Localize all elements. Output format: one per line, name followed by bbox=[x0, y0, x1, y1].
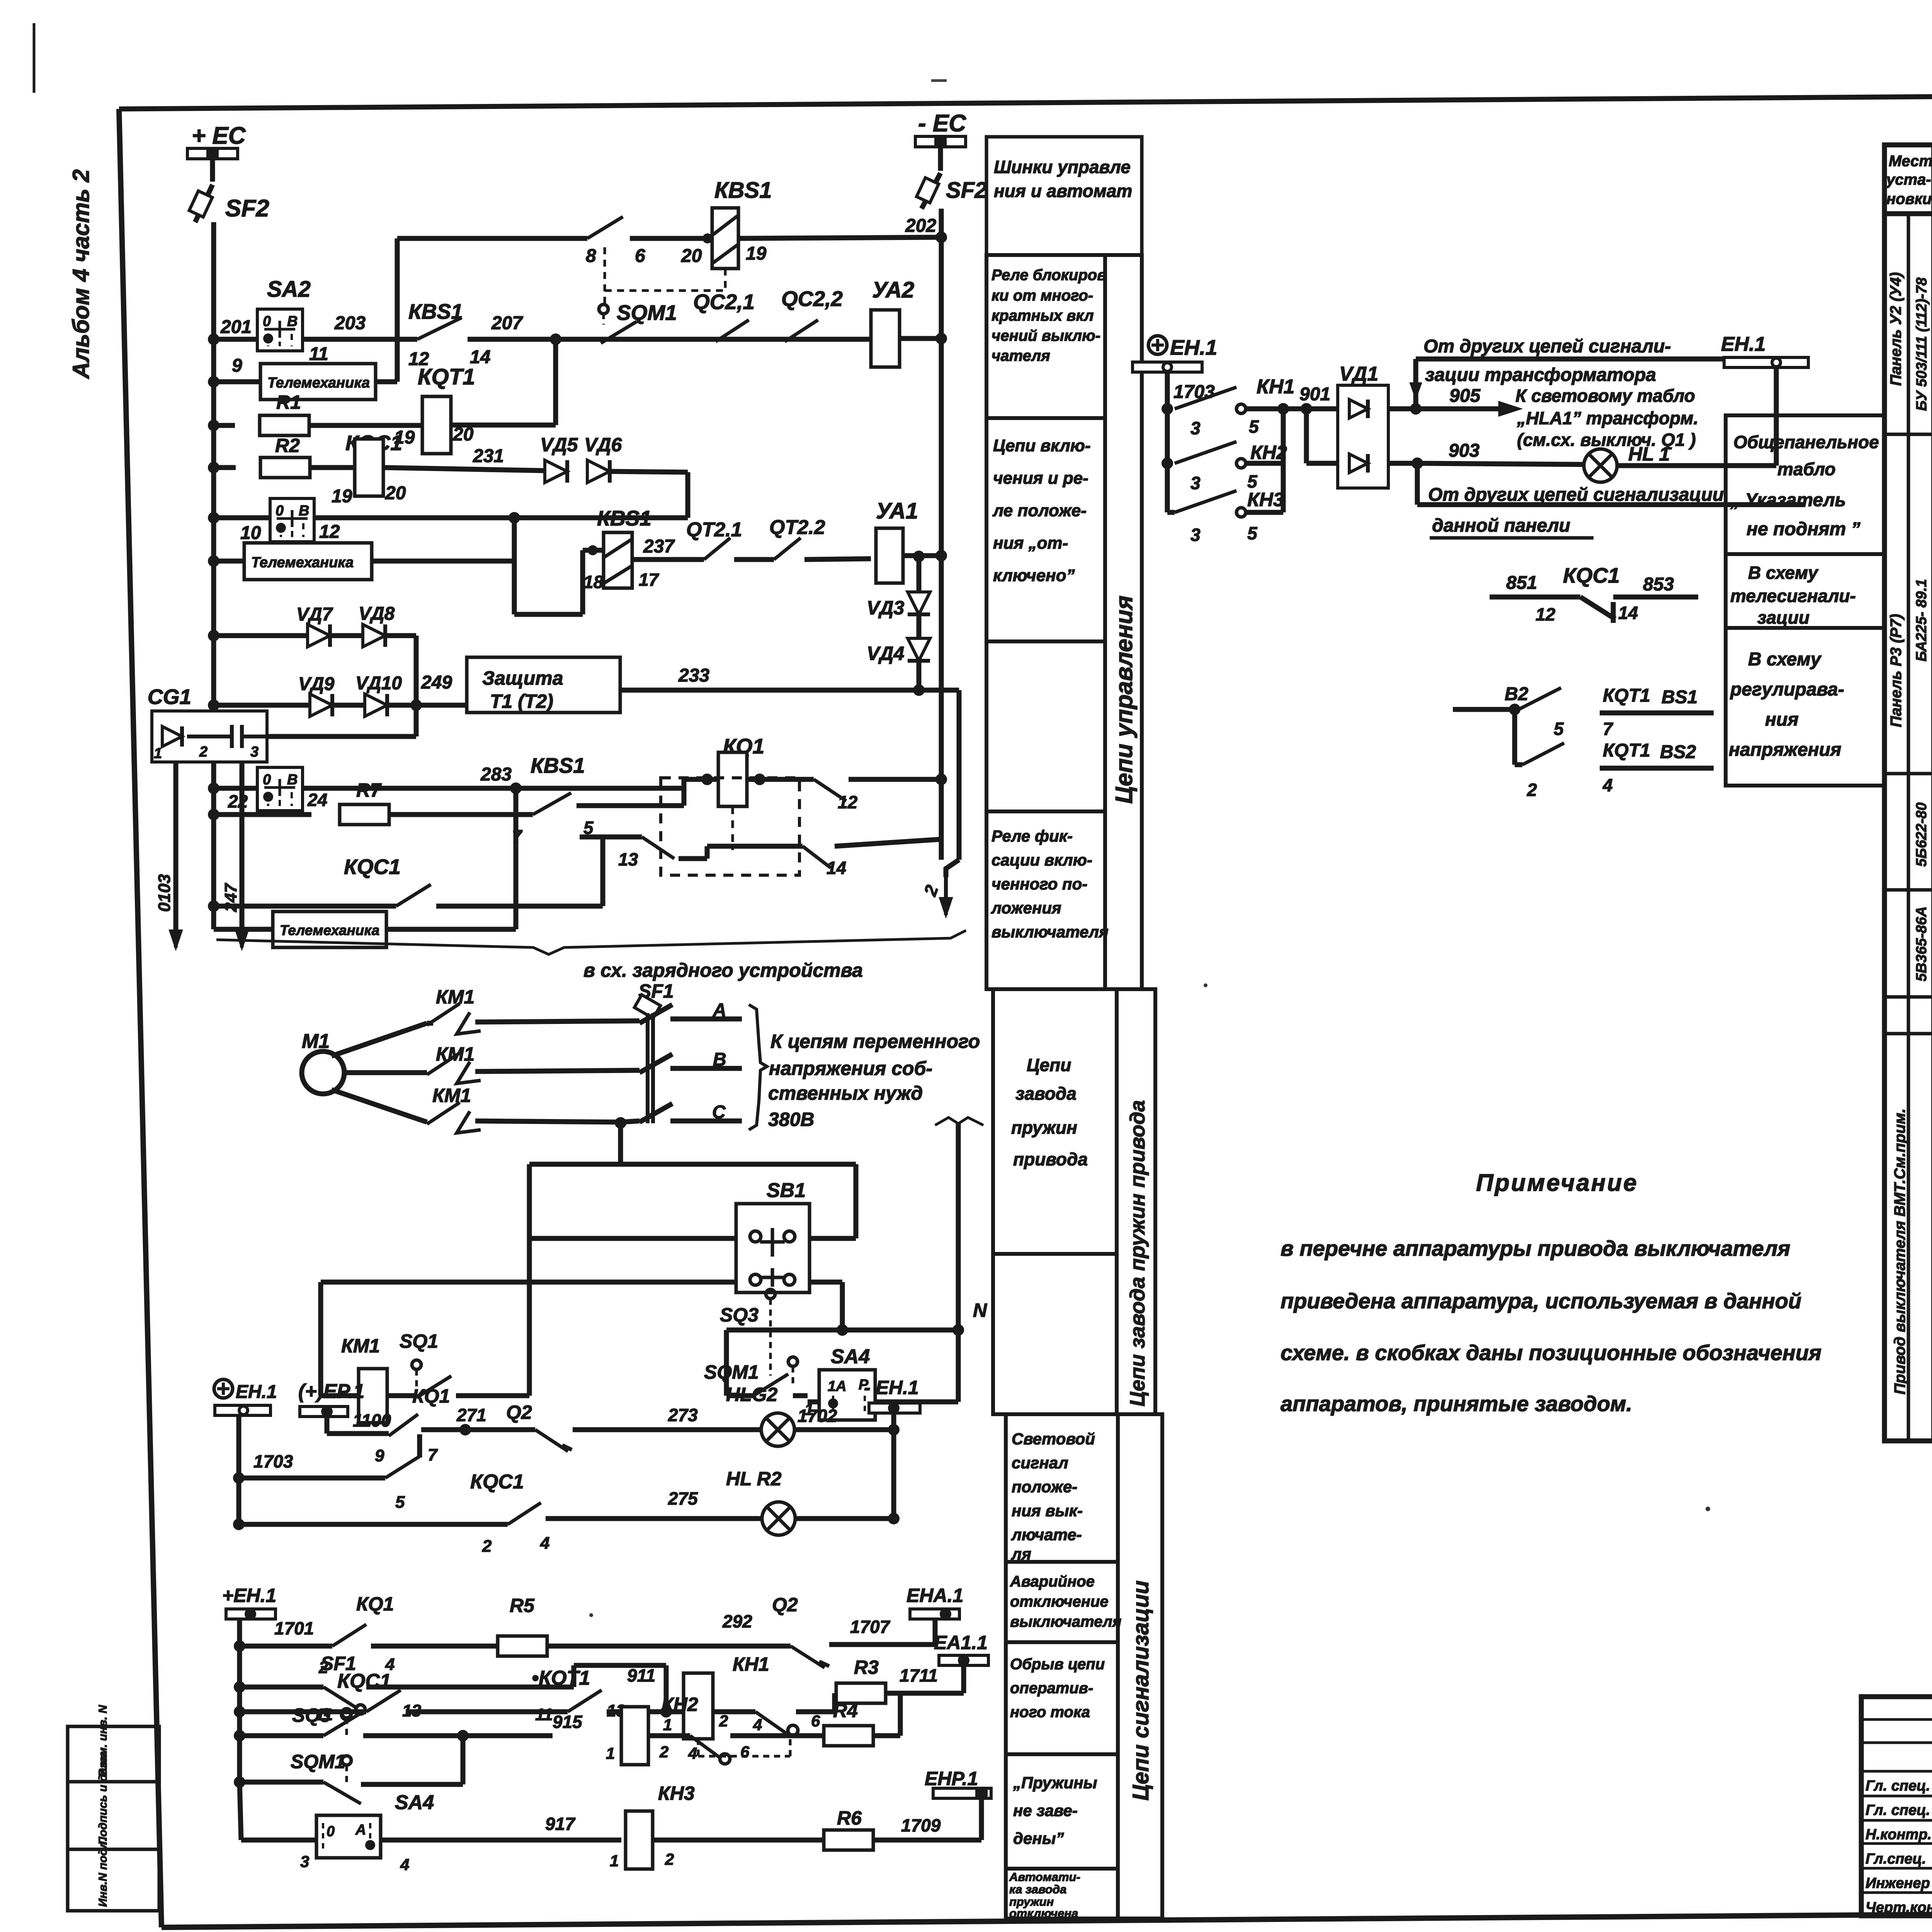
svg-text:КН3: КН3 bbox=[1247, 489, 1284, 510]
wire phase C drop to SB1 loop bbox=[618, 1123, 623, 1164]
strip control circuits bbox=[1105, 255, 1142, 989]
svg-text:Аварийное: Аварийное bbox=[1010, 1573, 1095, 1590]
svg-text:Привод выключателя ВМТ.См.прим: Привод выключателя ВМТ.См.прим. bbox=[1891, 1109, 1908, 1395]
svg-text:1: 1 bbox=[606, 1744, 615, 1762]
wire 203 bbox=[303, 337, 417, 342]
svg-text:Телемеханика: Телемеханика bbox=[251, 554, 354, 571]
svg-text:А: А bbox=[355, 1822, 366, 1838]
svg-text:Световой: Световой bbox=[1012, 1430, 1095, 1448]
label box broken circuit bbox=[1006, 1642, 1118, 1754]
wire main minus bus bbox=[939, 209, 944, 860]
svg-text:12: 12 bbox=[838, 792, 858, 812]
wire 283 drop bbox=[514, 788, 519, 929]
svg-text:5: 5 bbox=[1554, 719, 1564, 739]
bus EH.1 plus lower bbox=[214, 1379, 233, 1398]
svg-text:1709: 1709 bbox=[901, 1815, 941, 1835]
svg-text:КМ1: КМ1 bbox=[432, 1085, 471, 1106]
svg-text:КВS1: КВS1 bbox=[597, 506, 651, 530]
breaker SF2 bbox=[195, 185, 213, 222]
svg-text:КQС1: КQС1 bbox=[344, 855, 401, 879]
wire 202 bbox=[738, 237, 941, 238]
label box emergency trip bbox=[1006, 1562, 1118, 1642]
svg-text:9: 9 bbox=[375, 1446, 384, 1465]
svg-text:0: 0 bbox=[327, 1823, 335, 1840]
svg-text:20: 20 bbox=[681, 246, 702, 266]
svg-text:не заве-: не заве- bbox=[1013, 1801, 1078, 1820]
bus EHP.1 bbox=[979, 1798, 984, 1840]
svg-text:(+)ЕР.1: (+)ЕР.1 bbox=[298, 1380, 364, 1403]
svg-text:- ЕС: - ЕС bbox=[918, 110, 966, 137]
svg-text:выключателя: выключателя bbox=[992, 923, 1109, 941]
svg-text:2: 2 bbox=[719, 1712, 728, 1730]
label box circuits on bbox=[986, 418, 1105, 641]
svg-text:ЕА1.1: ЕА1.1 bbox=[934, 1632, 988, 1653]
wire SF1 row bbox=[234, 1681, 245, 1693]
wire link 1703 contact up bbox=[417, 1434, 422, 1458]
svg-text:1701: 1701 bbox=[274, 1618, 314, 1638]
wire zigzag minus bus bbox=[939, 839, 944, 860]
contact SQM1 lower bbox=[323, 1782, 361, 1804]
wire branch vertical bbox=[395, 238, 400, 382]
svg-text:207: 207 bbox=[491, 313, 523, 333]
svg-text:6: 6 bbox=[740, 1743, 750, 1761]
svg-text:сигнал: сигнал bbox=[1012, 1454, 1068, 1472]
svg-text:+ ЕС: + ЕС bbox=[192, 122, 246, 149]
svg-text:0103: 0103 bbox=[155, 874, 174, 912]
svg-text:0: 0 bbox=[263, 772, 271, 788]
svg-text:VД3: VД3 bbox=[867, 597, 904, 619]
box common panel light bbox=[1726, 415, 1884, 554]
wire 1701 row bbox=[234, 1640, 245, 1652]
svg-text:0: 0 bbox=[263, 313, 271, 330]
contact SF1 lower bbox=[323, 1687, 358, 1709]
svg-text:БУ 503/111 (112)-78: БУ 503/111 (112)-78 bbox=[1914, 277, 1930, 411]
drawing frame border bbox=[119, 92, 1932, 109]
svg-text:Панель У2 (У4): Панель У2 (У4) bbox=[1888, 272, 1905, 386]
contact KH1 row 1703 bbox=[1162, 403, 1173, 415]
svg-text:Гл. спец.: Гл. спец. bbox=[1866, 1802, 1930, 1818]
svg-text:КQ1: КQ1 bbox=[356, 1593, 394, 1615]
svg-text:Реле фик-: Реле фик- bbox=[992, 827, 1073, 845]
brace N wire bbox=[935, 1117, 983, 1125]
svg-text:В: В bbox=[287, 772, 298, 788]
svg-text:SА4: SА4 bbox=[831, 1345, 870, 1368]
svg-text:271: 271 bbox=[456, 1405, 486, 1425]
svg-text:1: 1 bbox=[154, 745, 162, 762]
box telemechanika 2 bbox=[214, 559, 244, 564]
svg-text:203: 203 bbox=[334, 313, 366, 333]
table outer frame bbox=[1884, 145, 1932, 1441]
svg-text:телесигнали-: телесигнали- bbox=[1730, 586, 1856, 606]
wire 901 branch bbox=[1304, 409, 1309, 463]
diode VD9 bbox=[214, 703, 309, 708]
wire drop telemechanika 2 bbox=[512, 518, 517, 561]
svg-text:N: N bbox=[973, 1299, 987, 1321]
box to voltage regulation scheme bbox=[1726, 628, 1884, 786]
svg-text:8: 8 bbox=[586, 246, 596, 266]
svg-text:ния: ния bbox=[1765, 709, 1799, 730]
bottom-left margin stamp boxes bbox=[68, 1726, 159, 1911]
svg-text:„Пружины: „Пружины bbox=[1013, 1774, 1097, 1792]
svg-text:КQТ1: КQТ1 bbox=[1603, 740, 1650, 761]
contact KQC1 11-13 bbox=[366, 1690, 401, 1712]
svg-text:3: 3 bbox=[1190, 525, 1201, 545]
svg-text:В: В bbox=[713, 1049, 726, 1070]
svg-text:905: 905 bbox=[1449, 386, 1481, 406]
svg-text:ЕНР.1: ЕНР.1 bbox=[925, 1768, 978, 1789]
svg-text:6: 6 bbox=[811, 1712, 820, 1730]
wire 905 bbox=[1410, 403, 1422, 415]
phase slashes through SF1 bbox=[639, 1005, 672, 1023]
wire up to 207 bbox=[553, 339, 558, 425]
svg-text:22: 22 bbox=[228, 791, 248, 811]
svg-text:4: 4 bbox=[688, 1744, 697, 1762]
svg-text:Телемеханика: Телемеханика bbox=[280, 922, 379, 938]
svg-text:13: 13 bbox=[618, 849, 638, 869]
svg-text:Гл.спец.: Гл.спец. bbox=[1866, 1851, 1926, 1867]
svg-text:ключено”: ключено” bbox=[993, 566, 1075, 585]
svg-text:917: 917 bbox=[545, 1814, 576, 1834]
wire HLR2 row bbox=[233, 1519, 245, 1530]
svg-text:Инженер: Инженер bbox=[1866, 1875, 1930, 1891]
svg-text:КQС1: КQС1 bbox=[470, 1471, 524, 1493]
svg-text:SQМ1: SQМ1 bbox=[704, 1361, 759, 1383]
svg-text:19: 19 bbox=[746, 243, 767, 264]
contact KM1 phase B bbox=[344, 1070, 427, 1075]
wire 247 drop bbox=[240, 762, 245, 943]
wire 202 left bbox=[630, 236, 712, 241]
table section dividers col1 bbox=[1884, 433, 1932, 436]
svg-text:В: В bbox=[287, 313, 298, 330]
svg-text:14: 14 bbox=[827, 858, 846, 878]
svg-text:1100: 1100 bbox=[353, 1410, 391, 1430]
relay coil KQ1 bbox=[684, 777, 718, 782]
svg-text:отключена: отключена bbox=[1009, 1906, 1078, 1920]
svg-text:КН1: КН1 bbox=[1257, 376, 1294, 398]
svg-text:VД10: VД10 bbox=[355, 673, 402, 694]
wire SB1 bottom left bbox=[321, 1280, 736, 1285]
svg-text:в сх. зарядного устройства: в сх. зарядного устройства bbox=[583, 959, 863, 981]
svg-text:зации: зации bbox=[1757, 607, 1810, 628]
svg-text:кратных вкл: кратных вкл bbox=[992, 307, 1094, 324]
diode VD7 bbox=[214, 633, 308, 638]
svg-text:2: 2 bbox=[659, 1743, 668, 1761]
svg-text:КН3: КН3 bbox=[658, 1782, 695, 1804]
svg-text:в перечне аппаратуры привод: в перечне аппаратуры привода выключателя bbox=[1281, 1236, 1790, 1260]
svg-text:5: 5 bbox=[395, 1493, 405, 1512]
svg-text:7: 7 bbox=[428, 1446, 438, 1464]
svg-text:Q2: Q2 bbox=[506, 1401, 532, 1423]
svg-text:К световому табло: К световому табло bbox=[1515, 386, 1695, 406]
svg-text:Цепи: Цепи bbox=[1027, 1055, 1071, 1075]
svg-text:24: 24 bbox=[307, 790, 327, 810]
svg-text:Защита: Защита bbox=[482, 667, 563, 689]
terminals A B C bbox=[670, 1017, 742, 1022]
svg-text:А: А bbox=[713, 1000, 726, 1020]
svg-text:табло: табло bbox=[1777, 459, 1835, 479]
resistor R1 bbox=[214, 423, 235, 428]
svg-text:ния „от-: ния „от- bbox=[993, 534, 1068, 553]
contact KQ1 1100 row bbox=[325, 1417, 330, 1434]
svg-text:УА1: УА1 bbox=[876, 498, 918, 524]
svg-text:ного тока: ного тока bbox=[1010, 1704, 1090, 1721]
svg-text:292: 292 bbox=[722, 1611, 752, 1631]
label box spring winding bbox=[993, 989, 1117, 1254]
svg-text:911: 911 bbox=[627, 1665, 655, 1685]
wire SB1 bottom right to N bbox=[810, 1280, 842, 1285]
svg-text:напряжения: напряжения bbox=[1729, 740, 1841, 760]
svg-text:Н.контр.: Н.контр. bbox=[1866, 1827, 1932, 1843]
svg-text:11: 11 bbox=[535, 1705, 553, 1724]
contact SQ3 bbox=[323, 1714, 359, 1736]
resistor R7 bbox=[214, 812, 311, 817]
left margin scan mark bbox=[33, 23, 36, 93]
svg-text:ка завода: ка завода bbox=[1009, 1883, 1066, 1896]
svg-text:1711: 1711 bbox=[900, 1665, 938, 1685]
svg-text:1707: 1707 bbox=[850, 1617, 891, 1637]
svg-text:Цепи вклю-: Цепи вклю- bbox=[993, 436, 1091, 455]
table column lines bbox=[1931, 145, 1932, 1441]
svg-text:дены”: дены” bbox=[1013, 1829, 1064, 1847]
svg-text:оператив-: оператив- bbox=[1010, 1680, 1093, 1697]
strip signal circuits bbox=[1118, 1414, 1162, 1918]
svg-text:SВ1: SВ1 bbox=[767, 1179, 806, 1202]
svg-text:275: 275 bbox=[668, 1488, 698, 1509]
contact KQT1 B52 bbox=[1512, 709, 1517, 765]
svg-text:Инв.N подл.: Инв.N подл. bbox=[97, 1838, 109, 1907]
svg-text:SF2: SF2 bbox=[946, 178, 987, 203]
contact KM1 phase C bbox=[332, 1090, 427, 1122]
svg-text:КН2: КН2 bbox=[662, 1694, 698, 1715]
strip spring circuits bbox=[1117, 989, 1155, 1414]
svg-text:сации вклю-: сации вклю- bbox=[992, 851, 1092, 869]
svg-text:Шинки управле: Шинки управле bbox=[994, 157, 1131, 177]
svg-text:напряжения соб-: напряжения соб- bbox=[769, 1058, 932, 1079]
svg-text:С: С bbox=[712, 1102, 726, 1122]
bus EHA.1 bbox=[933, 1619, 938, 1645]
wire drop to SA2 row bbox=[685, 472, 690, 518]
phase A wire bbox=[332, 1023, 427, 1056]
svg-text:чения и ре-: чения и ре- bbox=[993, 469, 1088, 488]
svg-text:НLG2: НLG2 bbox=[726, 1384, 778, 1405]
svg-text:1: 1 bbox=[663, 1716, 672, 1734]
svg-text:1703: 1703 bbox=[253, 1451, 293, 1471]
wire 201 bbox=[214, 337, 257, 342]
svg-text:249: 249 bbox=[421, 672, 452, 693]
svg-text:11: 11 bbox=[309, 344, 328, 364]
svg-text:903: 903 bbox=[1449, 440, 1480, 461]
svg-text:3: 3 bbox=[1190, 473, 1201, 493]
svg-text:ченного по-: ченного по- bbox=[992, 875, 1087, 893]
contact KQ1 13 bbox=[580, 835, 642, 840]
svg-text:КQТ1: КQТ1 bbox=[1603, 685, 1650, 706]
svg-text:„ Указатель: „ Указатель bbox=[1730, 490, 1846, 510]
svg-text:R4: R4 bbox=[833, 1700, 858, 1721]
wire SQM1 row bbox=[234, 1776, 245, 1788]
svg-text:Обрыв цепи: Обрыв цепи bbox=[1010, 1656, 1105, 1673]
svg-text:КМ1: КМ1 bbox=[341, 1335, 380, 1357]
svg-text:ЕН.1: ЕН.1 bbox=[1721, 333, 1766, 355]
svg-text:Автомати-: Автомати- bbox=[1009, 1870, 1080, 1884]
svg-text:отключение: отключение bbox=[1010, 1593, 1109, 1610]
wire coil KBS1 left link bbox=[583, 548, 604, 553]
switch SA2 second bbox=[214, 515, 270, 520]
svg-text:Цепи сигнализации: Цепи сигнализации bbox=[1128, 1580, 1153, 1801]
svg-text:VД6: VД6 bbox=[584, 434, 622, 456]
svg-text:УА2: УА2 bbox=[872, 277, 914, 303]
svg-text:Гл. спец.: Гл. спец. bbox=[1866, 1778, 1930, 1794]
svg-text:привода: привода bbox=[1013, 1149, 1088, 1169]
svg-text:5: 5 bbox=[1247, 523, 1258, 543]
svg-text:237: 237 bbox=[643, 536, 675, 557]
svg-text:ния вык-: ния вык- bbox=[1012, 1502, 1083, 1520]
svg-text:14: 14 bbox=[1618, 603, 1638, 623]
svg-text:ВS2: ВS2 bbox=[1660, 742, 1696, 762]
wire 903 lamp HL1 bbox=[1412, 457, 1423, 469]
wire from other signal circuits bbox=[1413, 359, 1418, 409]
table header row bbox=[1884, 211, 1932, 216]
svg-text:SА2: SА2 bbox=[267, 277, 311, 302]
wire VD8 drop bbox=[414, 636, 419, 705]
svg-text:915: 915 bbox=[553, 1712, 583, 1732]
label box spring automation off bbox=[1006, 1869, 1118, 1918]
svg-text:VД9: VД9 bbox=[298, 674, 335, 694]
svg-text:ле положе-: ле положе- bbox=[992, 501, 1087, 520]
svg-text:SQ3: SQ3 bbox=[292, 1704, 331, 1726]
resistor R2 bbox=[214, 465, 236, 470]
svg-text:12: 12 bbox=[319, 522, 340, 542]
svg-text:380В: 380В bbox=[768, 1109, 815, 1130]
svg-text:Панель Р3 (Р7): Панель Р3 (Р7) bbox=[1888, 614, 1905, 727]
svg-text:1: 1 bbox=[610, 1852, 619, 1870]
svg-text:Альбом 4 часть 2: Альбом 4 часть 2 bbox=[68, 169, 94, 379]
brace charger note bbox=[216, 930, 966, 954]
svg-text:НL R2: НL R2 bbox=[726, 1468, 782, 1490]
contact 8-6 bbox=[587, 217, 623, 238]
svg-text:лючате-: лючате- bbox=[1011, 1526, 1082, 1544]
svg-text:„НLА1” трансформ.: „НLА1” трансформ. bbox=[1517, 408, 1698, 428]
contact KH1 4-6 bbox=[697, 1739, 700, 1756]
label box light signal bbox=[1006, 1414, 1118, 1562]
svg-text:851: 851 bbox=[1506, 573, 1537, 593]
wire SQ3 row bbox=[234, 1730, 245, 1742]
svg-text:КQТ1: КQТ1 bbox=[418, 364, 475, 389]
svg-text:SQМ1: SQМ1 bbox=[617, 301, 677, 325]
svg-text:VД5: VД5 bbox=[540, 434, 578, 456]
svg-text:В схему: В схему bbox=[1748, 649, 1822, 670]
svg-text:QТ2.1: QТ2.1 bbox=[686, 519, 742, 541]
svg-text:R6: R6 bbox=[837, 1807, 862, 1829]
svg-text:10: 10 bbox=[240, 523, 261, 543]
svg-text:18: 18 bbox=[583, 572, 604, 592]
svg-text:От других цепей сигнализации: От других цепей сигнализации bbox=[1428, 485, 1724, 505]
brace phases bbox=[749, 1005, 767, 1130]
svg-text:5В365-86А: 5В365-86А bbox=[1913, 906, 1930, 981]
svg-text:Цепи управления: Цепи управления bbox=[1111, 595, 1138, 804]
svg-text:2: 2 bbox=[199, 744, 207, 760]
svg-text:QС2,1: QС2,1 bbox=[693, 290, 755, 314]
svg-text:не поднят ”: не поднят ” bbox=[1747, 519, 1861, 539]
svg-text:К цепям переменного: К цепям переменного bbox=[770, 1031, 980, 1052]
svg-text:В2: В2 bbox=[1505, 684, 1529, 704]
svg-text:чений выклю-: чений выклю- bbox=[992, 327, 1100, 344]
svg-text:SF2: SF2 bbox=[225, 195, 269, 222]
svg-text:чателя: чателя bbox=[992, 347, 1050, 364]
svg-text:Подпись и дата: Подпись и дата bbox=[97, 1751, 109, 1845]
svg-text:уста-: уста- bbox=[1886, 171, 1931, 188]
svg-text:1703: 1703 bbox=[1173, 382, 1215, 402]
svg-text:Место: Место bbox=[1889, 153, 1932, 170]
svg-text:Цепи завода пружин привода: Цепи завода пружин привода bbox=[1126, 1100, 1149, 1406]
svg-text:2: 2 bbox=[665, 1850, 674, 1868]
svg-text:4: 4 bbox=[400, 1855, 409, 1874]
svg-text:273: 273 bbox=[668, 1405, 698, 1425]
svg-text:SQ3: SQ3 bbox=[720, 1304, 759, 1326]
box telemechanika 3 bbox=[214, 927, 273, 932]
svg-text:ложения: ложения bbox=[991, 899, 1061, 917]
wire KQC1 row lower bbox=[234, 1706, 245, 1718]
svg-text:VД7: VД7 bbox=[296, 604, 333, 625]
svg-text:QТ2.2: QТ2.2 bbox=[769, 516, 825, 539]
svg-text:В схему: В схему bbox=[1748, 563, 1819, 583]
svg-text:SQ1: SQ1 bbox=[400, 1330, 438, 1352]
box protection T1 T2 bbox=[467, 657, 620, 713]
svg-text:ЕН.1: ЕН.1 bbox=[1170, 335, 1217, 359]
svg-text:2: 2 bbox=[482, 1537, 492, 1556]
wire to contact 8 bbox=[397, 236, 587, 241]
svg-text:регулирава-: регулирава- bbox=[1730, 679, 1844, 700]
svg-text:Черт.конст.: Черт.конст. bbox=[1866, 1900, 1932, 1916]
contact KH2 row bbox=[1162, 457, 1173, 469]
svg-text:- ЕН.1: - ЕН.1 bbox=[864, 1377, 919, 1398]
contact KQT1 B51 bbox=[1453, 707, 1515, 712]
svg-text:ЕН.1: ЕН.1 bbox=[236, 1382, 277, 1402]
svg-text:19: 19 bbox=[332, 486, 352, 507]
wire KH vertical bbox=[1281, 409, 1286, 512]
svg-text:4: 4 bbox=[753, 1716, 762, 1734]
label box relay blocking bbox=[986, 255, 1105, 418]
svg-text:зации трансформатора: зации трансформатора bbox=[1425, 365, 1656, 385]
svg-text:новки: новки bbox=[1886, 190, 1932, 207]
svg-text:завода: завода bbox=[1015, 1083, 1077, 1104]
svg-text:Реле блокиров: Реле блокиров bbox=[992, 267, 1106, 284]
wire 917 bbox=[381, 1838, 621, 1843]
svg-text:17: 17 bbox=[639, 570, 660, 590]
svg-text:+ЕН.1: +ЕН.1 bbox=[222, 1585, 276, 1606]
svg-text:2: 2 bbox=[1527, 780, 1537, 800]
box to telesignal scheme bbox=[1726, 554, 1884, 628]
svg-text:231: 231 bbox=[473, 446, 504, 466]
contact KQC1 1-3 bbox=[214, 904, 396, 909]
svg-text:схеме. в скобках даны пози: схеме. в скобках даны позиционные обозна… bbox=[1281, 1340, 1821, 1365]
svg-text:выключателя: выключателя bbox=[1010, 1613, 1121, 1630]
svg-text:положе-: положе- bbox=[1012, 1478, 1077, 1496]
wire 237 bbox=[632, 557, 704, 562]
svg-text:VД8: VД8 bbox=[359, 604, 395, 624]
breaker SF2 minus bbox=[922, 173, 940, 209]
bus EA1.1 bbox=[961, 1665, 966, 1693]
svg-text:VД4: VД4 bbox=[867, 643, 904, 664]
svg-text:ственных нужд: ственных нужд bbox=[768, 1082, 923, 1104]
wire SB1 top left loop bbox=[529, 1162, 621, 1167]
diode VD4 bbox=[917, 615, 922, 638]
svg-text:Q2: Q2 bbox=[772, 1594, 798, 1616]
svg-text:От других цепей сигнали-: От других цепей сигнали- bbox=[1423, 336, 1671, 357]
svg-text:НL 1: НL 1 bbox=[1628, 443, 1670, 465]
svg-text:ки от много-: ки от много- bbox=[992, 287, 1093, 304]
svg-text:3: 3 bbox=[250, 744, 259, 760]
svg-text:ВS1: ВS1 bbox=[1662, 687, 1697, 707]
